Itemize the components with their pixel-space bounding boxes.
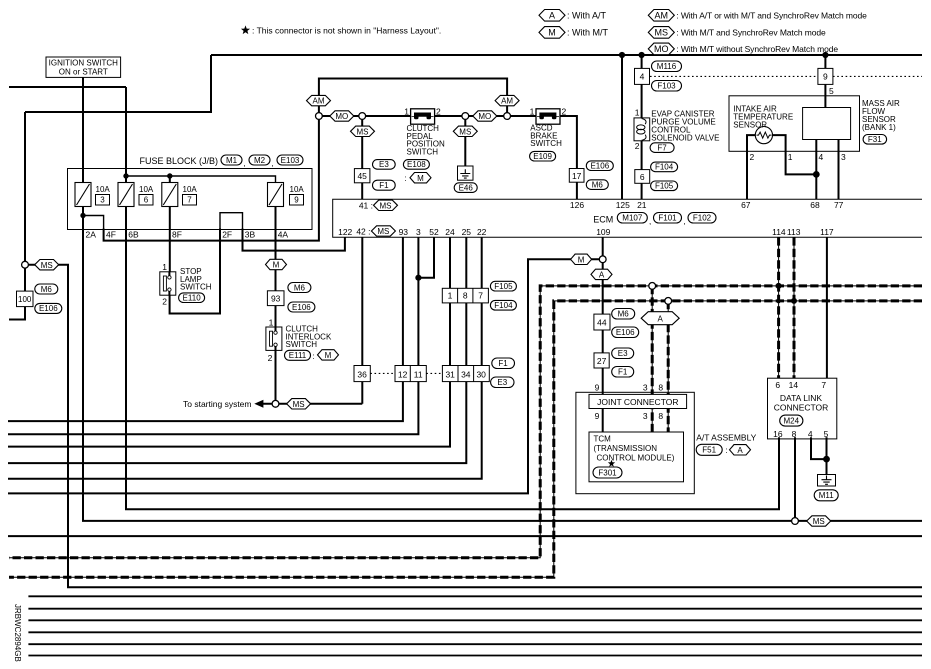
svg-text:6: 6: [640, 172, 645, 182]
svg-text:6: 6: [775, 380, 780, 390]
svg-text:A/T ASSEMBLY: A/T ASSEMBLY: [696, 433, 756, 443]
svg-text:M6: M6: [592, 180, 604, 189]
svg-text:14: 14: [789, 380, 799, 390]
svg-text:F104: F104: [655, 163, 674, 172]
svg-text:5: 5: [824, 429, 829, 439]
svg-text:E110: E110: [183, 294, 202, 303]
svg-text:114: 114: [772, 227, 786, 237]
svg-text:126: 126: [570, 200, 584, 210]
svg-text:M1: M1: [226, 156, 238, 165]
svg-text:F1: F1: [379, 181, 389, 190]
svg-text:2F: 2F: [222, 229, 232, 239]
svg-text:4A: 4A: [278, 229, 289, 239]
svg-text:ECM: ECM: [593, 214, 613, 224]
svg-text:MO: MO: [478, 112, 491, 121]
svg-text:12: 12: [398, 369, 408, 379]
svg-text:M116: M116: [657, 62, 677, 71]
svg-text:1: 1: [448, 291, 453, 301]
svg-text:25: 25: [462, 227, 472, 237]
svg-text:E109: E109: [533, 152, 552, 161]
svg-text:To starting system: To starting system: [183, 399, 252, 409]
svg-text:2: 2: [635, 141, 640, 151]
svg-text:E3: E3: [379, 160, 389, 169]
svg-text:(TRANSMISSION: (TRANSMISSION: [594, 444, 658, 453]
svg-text:100: 100: [18, 295, 32, 304]
svg-text:2A: 2A: [86, 229, 97, 239]
svg-text:A: A: [549, 10, 555, 20]
svg-text:SWITCH: SWITCH: [180, 283, 212, 292]
svg-text:1: 1: [404, 107, 409, 117]
svg-text:M107: M107: [622, 214, 643, 223]
svg-text:F104: F104: [494, 301, 513, 310]
svg-text:,: ,: [684, 217, 686, 226]
svg-text:: With M/T: : With M/T: [567, 28, 608, 38]
svg-text:3: 3: [643, 383, 648, 393]
svg-text:E106: E106: [590, 162, 609, 171]
svg-text:2: 2: [750, 152, 755, 162]
svg-text:MS: MS: [41, 261, 53, 270]
svg-text:F103: F103: [657, 82, 676, 91]
svg-text:77: 77: [834, 200, 844, 210]
svg-text:3B: 3B: [245, 229, 256, 239]
svg-text:E106: E106: [39, 304, 58, 313]
svg-text:24: 24: [445, 227, 455, 237]
svg-text:41 :: 41 :: [359, 200, 373, 210]
svg-text:8: 8: [792, 429, 797, 439]
svg-text:4: 4: [819, 152, 824, 162]
svg-text:: With M/T and SynchroRev Matc: : With M/T and SynchroRev Match mode: [676, 28, 826, 38]
svg-text:M6: M6: [41, 285, 53, 294]
svg-text:CONTROL MODULE): CONTROL MODULE): [597, 453, 675, 462]
svg-text:F105: F105: [655, 182, 674, 191]
svg-text:125: 125: [616, 200, 630, 210]
svg-text:JOINT CONNECTOR: JOINT CONNECTOR: [597, 397, 678, 407]
svg-text:8F: 8F: [172, 229, 182, 239]
svg-text:SENSOR: SENSOR: [733, 120, 767, 129]
svg-text:MS: MS: [293, 400, 305, 409]
svg-text::: :: [313, 352, 315, 361]
svg-text:E106: E106: [292, 303, 311, 312]
svg-text:IGNITION SWITCH: IGNITION SWITCH: [49, 58, 119, 67]
svg-text:42 :: 42 :: [356, 227, 370, 237]
svg-text:MS: MS: [813, 517, 825, 526]
svg-text:F101: F101: [658, 214, 677, 223]
svg-text:9: 9: [294, 196, 299, 205]
svg-text:SWITCH: SWITCH: [530, 139, 562, 148]
svg-text:F301: F301: [598, 468, 617, 477]
svg-text:M6: M6: [618, 310, 630, 319]
svg-text:F1: F1: [498, 359, 508, 368]
svg-text:AM: AM: [313, 97, 325, 106]
svg-text:,: ,: [272, 159, 274, 168]
svg-text:34: 34: [461, 369, 471, 379]
svg-text:9: 9: [595, 411, 600, 421]
svg-text:M: M: [548, 28, 556, 38]
svg-text:122: 122: [338, 227, 352, 237]
svg-text:,: ,: [244, 159, 246, 168]
svg-text:109: 109: [596, 227, 610, 237]
svg-text:9: 9: [823, 72, 828, 82]
svg-text:11: 11: [414, 369, 423, 379]
svg-text:: This connector is not shown: : This connector is not shown in "Harnes…: [252, 26, 441, 36]
svg-text:16: 16: [773, 429, 783, 439]
svg-text:FUSE BLOCK (J/B): FUSE BLOCK (J/B): [139, 156, 218, 166]
svg-text:E111: E111: [289, 351, 307, 360]
svg-text:8: 8: [463, 291, 468, 301]
svg-text:E3: E3: [618, 349, 628, 358]
svg-text:93: 93: [399, 227, 409, 237]
svg-text:(BANK 1): (BANK 1): [862, 123, 896, 132]
svg-text:M: M: [417, 174, 424, 183]
svg-text:A: A: [737, 446, 743, 455]
svg-text:M: M: [273, 261, 280, 270]
svg-text:AM: AM: [501, 97, 513, 106]
svg-text:9: 9: [595, 383, 600, 393]
svg-text:1: 1: [788, 152, 793, 162]
svg-text:MS: MS: [357, 127, 369, 136]
svg-text:M: M: [325, 351, 332, 360]
svg-text:117: 117: [820, 227, 834, 237]
svg-text:JRBWC2894GB: JRBWC2894GB: [13, 604, 22, 662]
svg-text:MS: MS: [655, 28, 669, 38]
svg-text:A: A: [599, 271, 605, 280]
svg-text:E46: E46: [459, 183, 474, 192]
svg-text:68: 68: [810, 200, 820, 210]
svg-text:7: 7: [478, 291, 483, 301]
svg-text:10A: 10A: [183, 185, 198, 194]
svg-text:45: 45: [357, 171, 367, 181]
svg-text:10A: 10A: [96, 185, 111, 194]
svg-text:M: M: [578, 255, 585, 264]
svg-text:F105: F105: [494, 282, 513, 291]
svg-text:67: 67: [741, 200, 751, 210]
svg-text:AM: AM: [655, 10, 669, 20]
svg-text:31: 31: [445, 369, 455, 379]
svg-text:2: 2: [162, 297, 167, 307]
svg-text:3: 3: [416, 227, 421, 237]
svg-text:M6: M6: [294, 283, 306, 292]
svg-text:2: 2: [436, 107, 441, 117]
svg-text:27: 27: [597, 356, 607, 366]
svg-text:F7: F7: [657, 143, 667, 152]
svg-text:1: 1: [269, 318, 274, 328]
svg-text:F51: F51: [702, 446, 716, 455]
svg-text:21: 21: [637, 200, 647, 210]
svg-text:3: 3: [841, 152, 846, 162]
svg-text:CONNECTOR: CONNECTOR: [774, 403, 829, 413]
svg-text:1: 1: [162, 262, 167, 272]
svg-text:E106: E106: [616, 328, 635, 337]
svg-text:8: 8: [658, 383, 663, 393]
svg-text:30: 30: [476, 369, 486, 379]
svg-text:F1: F1: [618, 368, 628, 377]
svg-text:52: 52: [429, 227, 439, 237]
svg-text:2: 2: [562, 107, 567, 117]
svg-text::: :: [405, 174, 407, 183]
svg-text:7: 7: [187, 196, 192, 205]
svg-text:SWITCH: SWITCH: [407, 147, 439, 156]
svg-text:MS: MS: [459, 127, 471, 136]
svg-text:SOLENOID VALVE: SOLENOID VALVE: [651, 133, 719, 142]
svg-text:3: 3: [100, 196, 105, 205]
svg-text:3: 3: [643, 411, 648, 421]
svg-text:2: 2: [268, 353, 273, 363]
svg-text:E108: E108: [407, 160, 426, 169]
svg-text:ON or START: ON or START: [59, 67, 108, 76]
svg-text:6B: 6B: [128, 229, 139, 239]
svg-text:5: 5: [829, 86, 834, 96]
svg-text:E3: E3: [497, 378, 507, 387]
svg-text:: With M/T without SynchroRev: : With M/T without SynchroRev Match mode: [676, 44, 838, 54]
svg-text:DATA LINK: DATA LINK: [780, 393, 823, 403]
svg-text:MO: MO: [335, 112, 348, 121]
svg-text:F31: F31: [868, 135, 882, 144]
svg-text:93: 93: [271, 294, 281, 304]
svg-text:MS: MS: [380, 201, 392, 210]
svg-text:E103: E103: [281, 156, 300, 165]
svg-text:8: 8: [658, 411, 663, 421]
svg-text:MS: MS: [377, 227, 389, 236]
svg-text:7: 7: [821, 380, 826, 390]
svg-text:M11: M11: [819, 491, 835, 500]
svg-text:10A: 10A: [290, 185, 305, 194]
svg-text:MO: MO: [654, 44, 669, 54]
svg-text:1: 1: [530, 107, 535, 117]
svg-text:M2: M2: [254, 156, 266, 165]
svg-text:1: 1: [635, 108, 640, 118]
svg-text:4: 4: [808, 429, 813, 439]
svg-text:: With A/T or with M/T and Syn: : With A/T or with M/T and SynchroRev Ma…: [676, 11, 867, 21]
svg-text:10A: 10A: [139, 185, 154, 194]
svg-text:M24: M24: [784, 417, 800, 426]
svg-text:44: 44: [597, 318, 607, 328]
svg-text:TCM: TCM: [594, 434, 612, 443]
svg-text:6: 6: [144, 196, 149, 205]
svg-text:17: 17: [572, 171, 582, 181]
svg-text:F102: F102: [693, 214, 712, 223]
svg-text:4: 4: [640, 72, 645, 82]
svg-text:,: ,: [649, 217, 651, 226]
svg-text:SWITCH: SWITCH: [286, 340, 318, 349]
svg-text:113: 113: [787, 227, 801, 237]
svg-text::: :: [726, 446, 728, 455]
svg-text:4F: 4F: [106, 229, 116, 239]
svg-text:: With A/T: : With A/T: [567, 11, 607, 21]
svg-text:A: A: [658, 314, 664, 323]
svg-text:36: 36: [357, 369, 367, 379]
svg-text:22: 22: [477, 227, 487, 237]
